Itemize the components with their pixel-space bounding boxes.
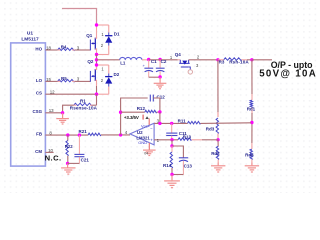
wire R12 left — [121, 111, 145, 113]
junction op-amp output node — [119, 133, 122, 136]
resistor R3 — [224, 58, 242, 61]
svg-text:C13: C13 — [184, 164, 193, 169]
svg-text:50V@ 10A: 50V@ 10A — [259, 68, 317, 79]
U1 pin number 10 — [48, 148, 53, 153]
resistor R13 — [178, 138, 192, 141]
power symbol bar — [142, 115, 144, 120]
wire R11 to divider — [201, 122, 252, 125]
wire Q1 drain branch — [97, 24, 109, 26]
junction Rd3 bottom — [216, 138, 219, 141]
wire Rd4 to ground — [251, 163, 253, 166]
Rd2 label — [211, 151, 220, 156]
U2 part number label — [136, 136, 150, 141]
capacitor C11 — [166, 123, 177, 139]
svg-text:FB: FB — [36, 132, 42, 137]
svg-text:HO: HO — [35, 46, 42, 51]
svg-text:+3.3/5V: +3.3/5V — [124, 115, 139, 120]
junction C2 top — [158, 58, 161, 61]
svg-text:LO: LO — [36, 78, 43, 83]
Rd1 pin lead top — [251, 94, 253, 100]
U2 GND label — [138, 140, 147, 145]
no-connect label N.C. — [45, 154, 62, 163]
wire Q1 source / D1 anode — [97, 54, 109, 56]
resistor R12 — [145, 110, 157, 113]
U1 pin number 12 — [50, 90, 55, 95]
junction output cap ground — [158, 75, 161, 78]
junction pin1 C11 — [170, 138, 173, 141]
R4 pin lead right — [72, 49, 75, 51]
R1 label — [80, 98, 86, 103]
U1 pin number 8 — [49, 131, 52, 136]
wire C1 C2 bottoms — [149, 76, 160, 78]
wire LO pin to R5 — [45, 80, 57, 82]
op-amp controller U1 LM5117 body — [11, 43, 46, 166]
wire L1 to C1 — [142, 59, 149, 61]
wire CSG pin — [45, 112, 62, 114]
svg-text:R12: R12 — [137, 106, 146, 111]
svg-text:C12: C12 — [157, 95, 166, 100]
junction SW to L1 — [95, 58, 98, 61]
C13 label — [184, 164, 193, 169]
resistor R22 — [66, 141, 68, 156]
Q2 gate pin number 3 — [77, 77, 80, 82]
transistor Q4 (MOSFET high-side switch) — [178, 60, 191, 70]
capacitor C13 — [179, 158, 188, 175]
wire Q4 to R3 — [189, 59, 218, 61]
Q2 pin number 2 — [101, 78, 104, 83]
svg-text:LM5117: LM5117 — [21, 36, 39, 42]
Q4 pin number 3 — [196, 63, 199, 68]
junction C12 R12 right — [158, 110, 161, 113]
junction R14 C13 ground — [170, 173, 173, 176]
R3 value label — [229, 60, 249, 65]
wire op-amp pin 1 net — [154, 139, 178, 141]
Q4 gate terminal circle — [188, 70, 192, 74]
svg-text:C2: C2 — [161, 59, 167, 64]
svg-text:CSG: CSG — [32, 109, 42, 114]
wire C13 bottom to R14 — [172, 174, 183, 176]
svg-text:R22: R22 — [65, 144, 73, 149]
D1 label — [114, 31, 120, 36]
diode D2 — [105, 65, 112, 94]
junction R3 left — [216, 58, 219, 61]
R12 label — [137, 106, 146, 111]
wire switch node vertical — [96, 55, 98, 70]
power label +3.3/5V — [124, 115, 139, 120]
wire pin1 node down — [171, 140, 173, 146]
wire D2 anode to CS node — [97, 93, 109, 95]
junction Q1 source — [95, 53, 98, 56]
wire Q2 drain branch — [97, 64, 109, 66]
Rd3 pin lead bottom — [217, 134, 219, 140]
C12 label — [157, 95, 166, 100]
capacitor C21 — [74, 135, 84, 163]
resistor Rd4 — [250, 143, 252, 163]
R21 label — [79, 129, 88, 134]
output annotation line 2 — [259, 68, 317, 79]
wire R1 left to CSG — [63, 105, 74, 113]
Q1 label — [86, 33, 93, 38]
U2 pin number 1 — [157, 138, 160, 143]
inductor L1 — [120, 57, 142, 59]
svg-text:N.C.: N.C. — [45, 154, 62, 163]
R14 label — [163, 163, 172, 168]
U2 pin number 3 — [157, 118, 160, 123]
svg-text:GND: GND — [138, 140, 147, 145]
diode D1 — [105, 25, 112, 55]
wire C21 bottom to ground node — [68, 162, 80, 164]
svg-text:C21: C21 — [81, 158, 90, 163]
wire HO pin to R4 — [45, 49, 57, 51]
resistor R11 — [188, 121, 201, 124]
junction C1 top — [147, 58, 150, 61]
Q1 gate pin number 3 — [77, 45, 80, 50]
R1 pin lead right — [90, 104, 93, 106]
wire down to inverting input — [159, 112, 161, 123]
C11 label — [179, 131, 188, 136]
wire Q2 source to CS node — [96, 86, 98, 94]
R3 pin lead left — [218, 59, 224, 61]
junction Q1 drain — [95, 23, 98, 26]
wire R3 left down to Rd3 — [217, 60, 219, 112]
Rd1 pin lead bottom — [251, 108, 253, 114]
L1 label — [120, 61, 126, 66]
power symbol arrow — [145, 116, 148, 119]
Q2 pin number 1 — [101, 66, 104, 71]
svg-text:Rd3: Rd3 — [206, 127, 215, 132]
svg-text:R4: R4 — [61, 45, 67, 50]
wire output down to Rd1 — [251, 60, 253, 94]
R3 label — [219, 60, 225, 65]
ground at CSG — [56, 113, 69, 124]
resistor R14 — [170, 152, 172, 168]
Q4 label — [175, 52, 182, 57]
wire R21 to op-amp — [101, 134, 130, 136]
resistor R14 top lead — [171, 146, 173, 152]
ground at op-amp — [143, 150, 156, 155]
junction output node — [250, 58, 253, 61]
svg-text:Rd1: Rd1 — [247, 107, 256, 112]
svg-text:R5: R5 — [61, 76, 67, 81]
wire CS node down to R1 — [96, 94, 98, 105]
svg-text:R21: R21 — [79, 129, 88, 134]
resistor Rd3 — [216, 118, 218, 134]
C21 label — [81, 158, 90, 163]
wire R3 right to output — [247, 59, 252, 61]
svg-text:D2: D2 — [114, 72, 120, 77]
capacitor C12 — [150, 95, 153, 102]
U1 pin name CS — [36, 91, 42, 96]
junction pin3 C11 — [170, 122, 173, 125]
U1 pin name FB — [36, 132, 42, 137]
wire R22 bottom lead — [67, 156, 69, 164]
R3 pin lead right — [242, 59, 247, 61]
R5 pin lead right — [72, 80, 75, 82]
resistor Rd1 — [250, 100, 252, 108]
op-amp Vcc lead — [148, 118, 150, 125]
wire Rd3 to Rd2 — [217, 140, 219, 147]
ground at R22 C21 — [61, 163, 75, 174]
U1 pin number 13 — [49, 108, 54, 113]
Q1 pin number 2 — [101, 43, 104, 48]
svg-text:CS: CS — [36, 91, 42, 96]
svg-text:CM: CM — [35, 149, 42, 154]
C1 label — [151, 59, 157, 64]
ground at R14 C13 — [164, 175, 180, 188]
ground at C1 C2 — [154, 77, 167, 89]
wire FB pin — [45, 134, 88, 136]
svg-text:U2: U2 — [137, 130, 143, 135]
Q4 pin number 1 — [170, 55, 173, 60]
wire Rd2 to ground — [217, 163, 219, 166]
svg-text:Q1: Q1 — [86, 33, 93, 38]
svg-text:R13: R13 — [183, 135, 192, 140]
U1 reference designator label — [21, 31, 39, 43]
ground at Rd2 — [211, 166, 225, 172]
wire R1 right to CS vertical — [93, 104, 97, 106]
D2 label — [114, 72, 120, 77]
wire R5 to Q2 gate — [75, 80, 91, 82]
svg-text:R14: R14 — [163, 163, 172, 168]
svg-text:R3: R3 — [219, 60, 225, 65]
wire C1 to Q4 — [149, 59, 178, 61]
wire C13 top branch — [172, 146, 183, 158]
transistor Q2 (N-MOSFET) — [90, 65, 96, 86]
junction divider Rd1 Rd4 — [250, 121, 253, 124]
op-amp output pin number 4 — [125, 130, 128, 135]
wire CS pin — [45, 93, 96, 95]
wire C12 right lead — [153, 98, 160, 112]
U1 pin number 18 — [46, 45, 51, 50]
U1 pin number 15 — [46, 77, 51, 82]
R22 label — [65, 144, 73, 149]
Rd1 label — [247, 107, 256, 112]
svg-text:04: 04 — [144, 152, 148, 156]
wire R22 top lead — [67, 135, 69, 140]
R5 pin lead left — [58, 80, 61, 82]
svg-text:D1: D1 — [114, 31, 120, 36]
Rd3 label — [206, 127, 215, 132]
U2 noninverting input mark — [150, 138, 153, 143]
junction Q2 drain — [95, 63, 98, 66]
junction pin3 C12R12 — [158, 122, 161, 125]
U1 pin 10 CM stub wire — [45, 151, 53, 153]
R11 label — [178, 119, 187, 124]
svg-text:Q4: Q4 — [175, 52, 182, 57]
U2 GND pin lead — [148, 143, 150, 150]
junction CSG ground node — [61, 111, 64, 114]
wire R12 right join — [157, 111, 160, 113]
svg-text:Rsense-10A: Rsense-10A — [70, 105, 98, 110]
svg-text:Rd4: Rd4 — [245, 153, 254, 158]
junction R22 C21 ground — [66, 162, 69, 165]
R1 value label — [70, 105, 98, 110]
ground at Rd4 — [245, 166, 259, 172]
resistor R5 — [58, 79, 75, 82]
svg-text:Rsh-10A: Rsh-10A — [229, 60, 249, 65]
resistor R1 — [74, 103, 93, 106]
U2 inverting input mark — [150, 126, 153, 131]
R4 pin lead left — [58, 49, 61, 51]
svg-text:R1: R1 — [80, 98, 86, 103]
Rd3 pin lead top — [217, 112, 219, 117]
wire R14 bottom — [171, 168, 173, 175]
wire Rd1 to Rd4 — [251, 113, 253, 143]
resistor R21 — [88, 133, 101, 136]
C1 polarity mark — [143, 63, 146, 68]
capacitor C2 — [156, 60, 165, 77]
R1 pin lead left — [74, 104, 77, 106]
svg-text:R11: R11 — [178, 119, 187, 124]
C2 label — [161, 59, 167, 64]
R13 label — [183, 135, 192, 140]
op-amp ground net label — [144, 152, 148, 156]
junction FB R22 — [66, 133, 69, 136]
svg-text:Q2: Q2 — [87, 59, 94, 64]
junction R14 C13 top — [170, 144, 173, 147]
wire R4 to Q1 gate — [75, 49, 91, 51]
capacitor C1 — [144, 60, 153, 77]
wire VIN to Q1 drain — [62, 9, 97, 26]
Rd4 label — [245, 153, 254, 158]
svg-text:C1: C1 — [151, 59, 157, 64]
U1 pin name LO — [36, 78, 43, 83]
Q2 label — [87, 59, 94, 64]
U1 pin name CM — [35, 149, 42, 154]
wire SW to L1 — [97, 59, 120, 61]
junction FB C21 — [78, 133, 81, 136]
transistor Q1 (N-MOSFET) — [90, 25, 96, 55]
resistor Rd2 — [216, 146, 218, 162]
svg-text:L1: L1 — [120, 61, 126, 66]
R4 label — [61, 45, 67, 50]
Q4 pin number 2 — [197, 54, 200, 59]
Q1 pin number 1 — [101, 32, 104, 37]
svg-text:U1: U1 — [27, 31, 33, 37]
wire op-amp fb left rail — [121, 98, 148, 135]
wire output stub — [252, 59, 272, 61]
resistor R4 — [58, 48, 75, 51]
U2 Vcc+ label — [141, 123, 151, 128]
wire op-amp pin 3 net — [154, 122, 187, 124]
svg-text:Rd2: Rd2 — [211, 151, 220, 156]
wire R13 to Rd3 bottom — [192, 139, 219, 141]
U2 label — [137, 130, 143, 135]
op-amp U2 LM321 body — [130, 123, 154, 145]
U1 pin name HO — [35, 46, 42, 51]
junction CS node — [95, 93, 98, 96]
junction R12 left — [119, 111, 122, 114]
U1 pin name CSG — [32, 109, 42, 114]
output annotation line 1 — [271, 60, 313, 70]
R5 label — [61, 76, 67, 81]
